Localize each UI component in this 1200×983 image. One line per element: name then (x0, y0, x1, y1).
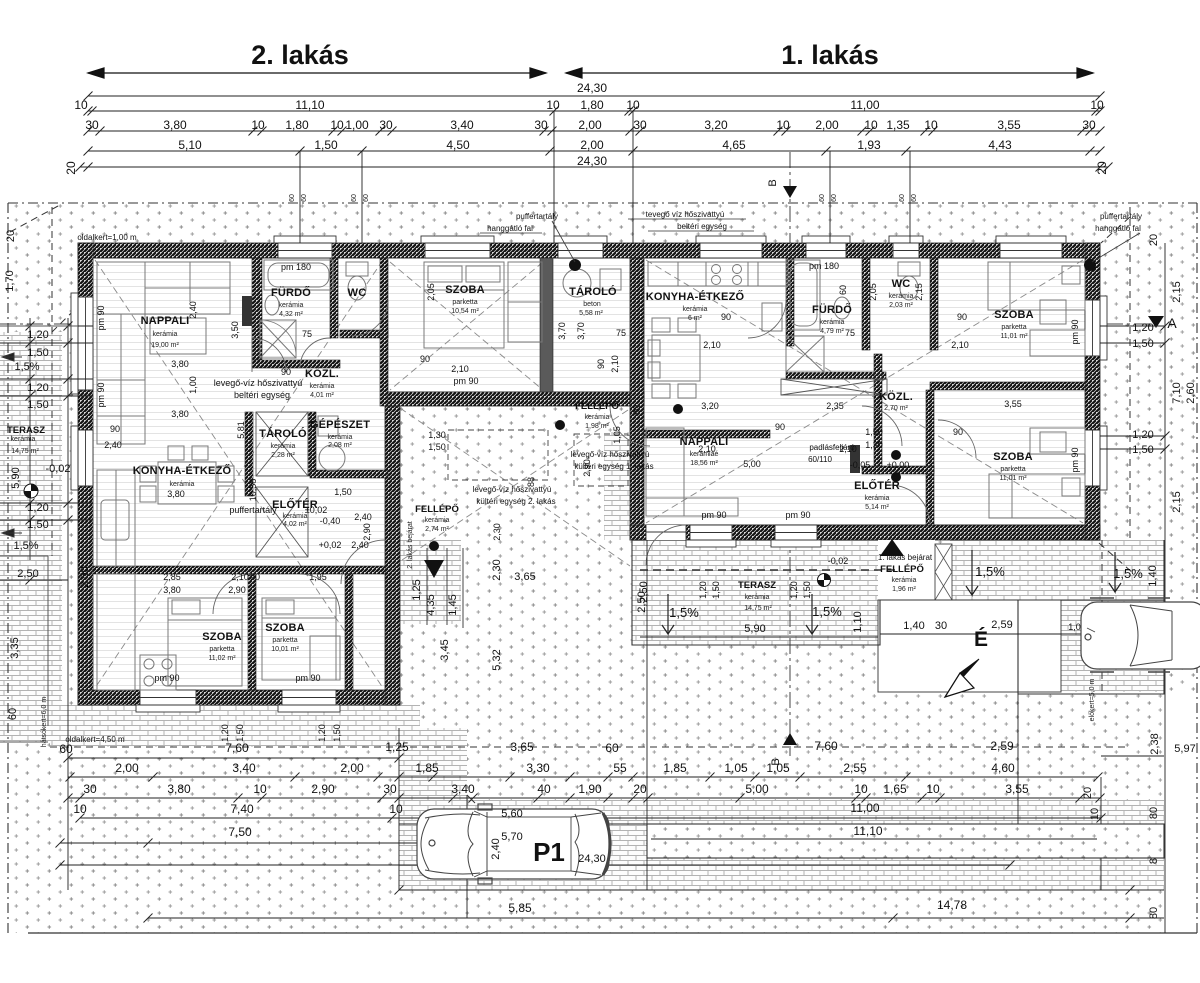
svg-text:kerámia: kerámia (585, 414, 610, 421)
beds lower wing (168, 598, 242, 686)
svg-text:1,20: 1,20 (220, 724, 230, 742)
svg-text:SZOBA: SZOBA (265, 622, 305, 634)
svg-text:2,05: 2,05 (868, 283, 878, 301)
property boundary (8, 203, 1197, 933)
svg-text:80: 80 (1148, 807, 1160, 819)
unit2 entry arrow (424, 560, 444, 578)
right dims (1100, 243, 1165, 933)
brick: right terrace (632, 540, 880, 645)
svg-text:oldalkert=1,00 m: oldalkert=1,00 m (77, 233, 137, 242)
svg-text:7,60: 7,60 (225, 741, 249, 755)
guide verticals to building (300, 111, 910, 243)
svg-text:SZOBA: SZOBA (993, 451, 1033, 463)
dining table unit1 (652, 335, 700, 381)
svg-text:60: 60 (363, 194, 370, 202)
svg-text:1,50: 1,50 (711, 581, 721, 599)
white court by parking (878, 600, 1061, 692)
svg-text:90: 90 (250, 572, 260, 582)
svg-text:1,50: 1,50 (27, 519, 48, 531)
svg-text:3,40: 3,40 (451, 782, 475, 796)
svg-text:10,58: 10,58 (248, 479, 258, 502)
svg-text:2,05: 2,05 (426, 283, 436, 301)
svg-text:levegő-víz hőszivattyú: levegő-víz hőszivattyú (473, 485, 552, 494)
svg-text:40: 40 (537, 782, 551, 796)
svg-text:2,08 m²: 2,08 m² (328, 442, 352, 449)
svg-text:4,43: 4,43 (988, 138, 1012, 152)
svg-text:beltéri egység: beltéri egység (677, 222, 727, 231)
svg-text:kerámia: kerámia (889, 293, 914, 300)
svg-text:1,80: 1,80 (580, 98, 604, 112)
dashed diagonals (95, 260, 1083, 688)
svg-text:1,5%: 1,5% (669, 605, 699, 620)
svg-text:1,20: 1,20 (698, 581, 708, 599)
svg-text:NAPPALI: NAPPALI (141, 315, 190, 327)
svg-text:kerámia: kerámia (425, 517, 450, 524)
svg-text:±0,02: ±0,02 (305, 505, 327, 515)
svg-text:1,96 m²: 1,96 m² (892, 586, 916, 593)
svg-text:7,40: 7,40 (230, 802, 254, 816)
svg-text:10: 10 (1090, 98, 1104, 112)
brick: unit2 entry path (399, 540, 461, 624)
svg-text:1,95: 1,95 (309, 572, 327, 582)
svg-text:2,90: 2,90 (228, 585, 246, 595)
svg-text:3,65: 3,65 (510, 740, 534, 754)
svg-text:5,60: 5,60 (501, 808, 522, 820)
svg-text:3,70: 3,70 (576, 322, 586, 340)
axis B dash-dot (789, 152, 791, 756)
svg-text:puffertartály: puffertartály (516, 212, 558, 221)
svg-text:3,80: 3,80 (163, 118, 187, 132)
svg-text:2,03 m²: 2,03 m² (889, 302, 913, 309)
svg-text:20: 20 (1082, 787, 1094, 799)
setback dashed lines (10, 206, 1133, 747)
svg-text:10: 10 (626, 98, 640, 112)
svg-text:7,50: 7,50 (228, 825, 252, 839)
svg-text:TERASZ: TERASZ (738, 580, 776, 591)
svg-text:1,30: 1,30 (428, 430, 446, 440)
svg-text:10: 10 (73, 802, 87, 816)
bed szoba unit1 bottom (989, 474, 1085, 518)
svg-text:3,40: 3,40 (232, 761, 256, 775)
svg-text:1,20: 1,20 (317, 724, 327, 742)
axis A marker (1148, 316, 1164, 328)
svg-text:levegő-víz hőszivattyú: levegő-víz hőszivattyú (571, 450, 650, 459)
svg-text:3,55: 3,55 (1004, 399, 1022, 409)
svg-text:20: 20 (1095, 161, 1109, 175)
svg-text:30: 30 (534, 118, 548, 132)
svg-text:KONYHA-ÉTKEZŐ: KONYHA-ÉTKEZŐ (133, 464, 232, 477)
svg-text:-0,05: -0,05 (850, 460, 871, 470)
svg-text:1,50: 1,50 (865, 427, 883, 437)
terrace door unit1 (646, 525, 686, 540)
svg-text:10: 10 (854, 782, 868, 796)
svg-text:2,85: 2,85 (163, 572, 181, 582)
svg-text:10: 10 (546, 98, 560, 112)
svg-text:60: 60 (605, 741, 619, 755)
svg-text:20: 20 (5, 230, 17, 242)
svg-text:2,40: 2,40 (490, 838, 502, 859)
building floor slabs (78, 243, 1100, 705)
svg-text:SZOBA: SZOBA (994, 309, 1034, 321)
svg-text:24,30: 24,30 (577, 154, 607, 168)
bathtub unit2 (264, 260, 333, 290)
svg-text:1,50: 1,50 (235, 724, 245, 742)
svg-text:parketta: parketta (209, 646, 234, 653)
wall: court north (385, 392, 644, 406)
svg-text:24,30: 24,30 (577, 81, 607, 95)
svg-text:tevegő víz hőszivattyú: tevegő víz hőszivattyú (646, 210, 725, 219)
svg-text:1,85: 1,85 (415, 761, 439, 775)
terrace border right (632, 540, 1164, 645)
svg-text:1,20: 1,20 (27, 382, 48, 394)
svg-text:4,79 m²: 4,79 m² (820, 328, 844, 335)
svg-text:10: 10 (330, 118, 344, 132)
svg-text:2,00: 2,00 (815, 118, 839, 132)
svg-text:1,50: 1,50 (334, 487, 352, 497)
dining table unit2 (158, 462, 216, 504)
axis A dash-dot (0, 323, 1160, 325)
svg-text:+0,02: +0,02 (319, 540, 342, 550)
svg-text:1,50: 1,50 (428, 442, 446, 452)
chimney unit1 (850, 445, 860, 473)
svg-text:10,01 m²: 10,01 m² (271, 646, 299, 653)
svg-text:pm 90: pm 90 (96, 305, 106, 330)
svg-text:5,90: 5,90 (744, 623, 765, 635)
storage X-box unit2 (256, 412, 308, 476)
svg-text:parketta: parketta (1000, 466, 1025, 473)
svg-text:É: É (974, 628, 988, 651)
svg-text:10: 10 (74, 98, 88, 112)
svg-text:2,90: 2,90 (311, 782, 335, 796)
svg-text:parketta: parketta (272, 637, 297, 644)
svg-text:30: 30 (633, 118, 647, 132)
svg-text:1,50: 1,50 (27, 347, 48, 359)
terrace border (0, 326, 78, 742)
svg-text:3,80: 3,80 (167, 489, 185, 499)
svg-text:60: 60 (831, 194, 838, 202)
svg-text:3,80: 3,80 (163, 585, 181, 595)
axis B marker top (783, 186, 797, 198)
svg-text:2,10: 2,10 (231, 572, 249, 582)
svg-text:TÁROLÓ: TÁROLÓ (259, 427, 307, 440)
svg-text:90: 90 (281, 367, 291, 377)
svg-text:1,98 m²: 1,98 m² (585, 423, 609, 430)
svg-text:1,40: 1,40 (903, 620, 924, 632)
parking band white strip (647, 824, 1164, 858)
svg-text:levegő-víz hőszivattyú: levegő-víz hőszivattyú (214, 378, 303, 388)
svg-text:4,35: 4,35 (425, 594, 437, 615)
svg-text:1,50: 1,50 (802, 581, 812, 599)
svg-text:1,00: 1,00 (188, 376, 198, 394)
svg-text:1,90: 1,90 (578, 782, 602, 796)
svg-text:11,10: 11,10 (295, 98, 324, 112)
svg-text:-0,40: -0,40 (320, 516, 341, 526)
svg-text:90: 90 (953, 427, 963, 437)
basin unit2 (265, 295, 279, 315)
svg-text:10,54 m²: 10,54 m² (451, 308, 479, 315)
svg-text:1,20: 1,20 (27, 329, 48, 341)
gepeszet boiler (319, 445, 345, 471)
svg-text:20: 20 (1148, 234, 1160, 246)
svg-text:1,50: 1,50 (27, 399, 48, 411)
brick: left terrace (0, 332, 62, 742)
svg-text:1,70: 1,70 (4, 270, 16, 291)
svg-text:pm 90: pm 90 (1070, 319, 1080, 344)
svg-text:2,10: 2,10 (839, 444, 857, 454)
svg-text:11,10: 11,10 (853, 824, 882, 838)
svg-text:60: 60 (911, 194, 918, 202)
svg-text:1,20: 1,20 (27, 502, 48, 514)
svg-text:kerámia: kerámia (170, 481, 195, 488)
svg-text:10: 10 (251, 118, 265, 132)
svg-text:14,75 m²: 14,75 m² (744, 605, 772, 612)
svg-text:FELLÉPŐ: FELLÉPŐ (415, 503, 459, 515)
shower unit2 (260, 320, 296, 358)
svg-text:10: 10 (776, 118, 790, 132)
svg-text:10: 10 (1089, 808, 1101, 820)
svg-text:7,60: 7,60 (814, 739, 838, 753)
svg-text:pm 90: pm 90 (785, 510, 810, 520)
svg-text:55: 55 (613, 761, 627, 775)
svg-text:2,00: 2,00 (340, 761, 364, 775)
svg-text:1,30: 1,30 (865, 440, 883, 450)
stove unit1 (706, 262, 748, 286)
svg-text:kerámia: kerámia (745, 594, 770, 601)
svg-text:2,30: 2,30 (492, 523, 502, 541)
sofa unit2 (97, 262, 230, 314)
svg-text:1,00: 1,00 (345, 118, 369, 132)
svg-text:11,01 m²: 11,01 m² (999, 475, 1027, 482)
svg-text:60: 60 (289, 194, 296, 202)
svg-text:kerámia: kerámia (310, 383, 335, 390)
svg-text:kerámia: kerámia (865, 495, 890, 502)
stove unit2 (140, 655, 176, 690)
svg-text:parketta: parketta (452, 299, 477, 306)
brick: walkway to parking (950, 540, 1164, 600)
svg-text:3,70: 3,70 (557, 322, 567, 340)
svg-text:20: 20 (64, 161, 78, 175)
windows left wing south wall (136, 690, 200, 712)
svg-text:90: 90 (110, 424, 120, 434)
svg-text:1,93: 1,93 (857, 138, 881, 152)
svg-text:2,59: 2,59 (991, 619, 1012, 631)
interior partitions unit1 (644, 258, 1085, 525)
svg-text:6 m²: 6 m² (688, 315, 703, 322)
wall: north (78, 243, 1100, 258)
svg-text:2,15: 2,15 (914, 283, 924, 301)
svg-text:1,40: 1,40 (1147, 565, 1159, 586)
exterior walls (78, 243, 1100, 705)
svg-text:2,10: 2,10 (698, 444, 716, 454)
bed szoba unit1 top (988, 262, 1085, 310)
svg-text:kerámia: kerámia (328, 434, 353, 441)
svg-text:3,45: 3,45 (439, 639, 451, 660)
svg-text:3,35: 3,35 (9, 637, 21, 658)
svg-text:3,55: 3,55 (1005, 782, 1029, 796)
svg-text:1,20: 1,20 (1132, 322, 1153, 334)
svg-text:FÜRDŐ: FÜRDŐ (271, 286, 311, 299)
svg-text:beton: beton (583, 301, 601, 308)
svg-text:beltéri egység: beltéri egység (234, 390, 290, 400)
svg-text:pm 180: pm 180 (809, 261, 839, 271)
svg-text:1,10: 1,10 (852, 611, 864, 632)
svg-text:18,56 m²: 18,56 m² (690, 460, 718, 467)
axis B marker bottom (783, 733, 797, 745)
svg-text:1,50: 1,50 (314, 138, 338, 152)
svg-text:30: 30 (83, 782, 97, 796)
basin unit1 (834, 297, 850, 319)
svg-text:SZOBA: SZOBA (202, 631, 242, 643)
svg-text:kerámia: kerámia (279, 302, 304, 309)
svg-text:2,30: 2,30 (491, 559, 503, 580)
svg-text:1,25: 1,25 (411, 579, 423, 600)
wc unit1 (898, 262, 920, 276)
svg-text:pm 90: pm 90 (453, 376, 478, 386)
svg-text:10: 10 (864, 118, 878, 132)
svg-text:kültéri egység 2. lakás: kültéri egység 2. lakás (476, 497, 555, 506)
svg-text:2,59: 2,59 (990, 739, 1014, 753)
svg-text:1,35: 1,35 (886, 118, 910, 132)
svg-text:90: 90 (420, 354, 430, 364)
svg-text:1,50: 1,50 (332, 724, 342, 742)
indoor heatpump unit (600, 269, 621, 290)
svg-text:4,50: 4,50 (446, 138, 470, 152)
left dims (0, 318, 93, 700)
svg-text:10: 10 (924, 118, 938, 132)
svg-text:4,65: 4,65 (722, 138, 746, 152)
svg-text:1,05: 1,05 (612, 426, 622, 444)
svg-text:3,80: 3,80 (167, 782, 191, 796)
svg-text:2,00: 2,00 (578, 118, 602, 132)
svg-text:kerámia: kerámia (11, 436, 36, 443)
svg-text:kerámia: kerámia (683, 306, 708, 313)
svg-text:60: 60 (351, 194, 358, 202)
svg-text:5,32: 5,32 (491, 649, 503, 670)
svg-text:2,00: 2,00 (115, 761, 139, 775)
puffer tank circle (563, 269, 591, 297)
svg-text:3,65: 3,65 (514, 571, 535, 583)
svg-text:P1: P1 (533, 837, 565, 867)
svg-text:2,90: 2,90 (362, 523, 372, 541)
ground stipple field (8, 203, 1197, 933)
wall: left wing south (78, 690, 400, 705)
svg-text:2,15: 2,15 (1171, 491, 1183, 512)
svg-text:2,40: 2,40 (104, 440, 122, 450)
svg-text:2,70 m²: 2,70 m² (884, 405, 908, 412)
svg-text:kerámia: kerámia (820, 319, 845, 326)
wc unit2 (346, 262, 368, 276)
svg-text:3,50: 3,50 (230, 321, 240, 339)
svg-text:FELLÉPŐ: FELLÉPŐ (575, 400, 619, 412)
windows unit1 south wall (686, 525, 736, 547)
svg-text:3,55: 3,55 (997, 118, 1021, 132)
wall: east (1085, 243, 1100, 540)
walkway dims line (880, 633, 1160, 635)
svg-text:pm 90: pm 90 (96, 382, 106, 407)
svg-text:KONYHA-ÉTKEZŐ: KONYHA-ÉTKEZŐ (646, 290, 745, 303)
svg-text:11,01 m²: 11,01 m² (1000, 333, 1028, 340)
kitchen unit2 counter (97, 470, 135, 566)
svg-text:2,55: 2,55 (843, 761, 867, 775)
bed szoba unit2 (424, 262, 504, 348)
svg-text:2,40: 2,40 (351, 540, 369, 550)
bathtub unit1 (786, 260, 820, 330)
svg-text:24,30: 24,30 (578, 853, 606, 865)
brick: band under left wing (50, 705, 420, 747)
svg-text:WC: WC (892, 278, 911, 290)
brick: parking pad right (1018, 540, 1164, 692)
svg-text:1,25: 1,25 (385, 740, 409, 754)
svg-text:14,78: 14,78 (937, 898, 967, 912)
wardrobe unit2 (508, 262, 542, 342)
svg-text:1. lakás: 1. lakás (781, 40, 879, 70)
fridge unit1 (762, 303, 782, 331)
svg-text:60: 60 (819, 194, 826, 202)
svg-text:30: 30 (935, 620, 947, 632)
unit1 entry arrow (880, 539, 904, 556)
svg-text:3,30: 3,30 (526, 761, 550, 775)
windows east wall (1085, 296, 1107, 360)
svg-text:5,81: 5,81 (236, 421, 246, 439)
desk szoba unit1 bottom (1030, 428, 1085, 454)
svg-text:14,75 m²: 14,75 m² (11, 448, 39, 455)
wall: unit1 south (630, 525, 1100, 540)
kitchen unit1 counter (648, 262, 788, 286)
svg-text:90: 90 (957, 312, 967, 322)
svg-text:1,50: 1,50 (1132, 444, 1153, 456)
svg-text:4,60: 4,60 (991, 761, 1015, 775)
svg-text:5,70: 5,70 (501, 831, 522, 843)
svg-text:2,28 m²: 2,28 m² (271, 452, 295, 459)
svg-text:5,90: 5,90 (10, 467, 22, 488)
svg-text:5,00: 5,00 (743, 459, 761, 469)
svg-text:1,5%: 1,5% (14, 361, 39, 373)
svg-text:30: 30 (1082, 118, 1096, 132)
svg-text:80: 80 (632, 405, 642, 415)
svg-text:4,01 m²: 4,01 m² (310, 392, 334, 399)
svg-text:30: 30 (85, 118, 99, 132)
sofa unit1 (646, 428, 684, 516)
svg-text:TÁROLÓ: TÁROLÓ (569, 285, 617, 298)
brick: unit1 entry path (604, 432, 632, 540)
svg-text:90: 90 (721, 312, 731, 322)
svg-text:11,00: 11,00 (850, 98, 879, 112)
svg-text:2,00: 2,00 (580, 138, 604, 152)
chimney unit2 (242, 296, 252, 326)
svg-text:10: 10 (253, 782, 267, 796)
svg-text:1,85: 1,85 (663, 761, 687, 775)
svg-text:1,20: 1,20 (1132, 429, 1153, 441)
svg-text:pm 180: pm 180 (281, 262, 311, 272)
svg-text:kerámia: kerámia (153, 331, 178, 338)
svg-text:19,00 m²: 19,00 m² (151, 342, 179, 349)
door arcs (213, 300, 976, 614)
svg-text:5,10: 5,10 (178, 138, 202, 152)
svg-text:11,02 m²: 11,02 m² (208, 655, 236, 662)
svg-text:TERASZ: TERASZ (7, 425, 45, 436)
svg-text:80: 80 (1148, 907, 1160, 919)
windows west wall (71, 293, 93, 394)
svg-text:20: 20 (633, 782, 647, 796)
sound insulating wall (hanggatlo fal) (540, 258, 553, 392)
svg-text:-0,02: -0,02 (828, 556, 849, 566)
svg-text:60: 60 (899, 194, 906, 202)
svg-text:30: 30 (379, 118, 393, 132)
svg-text:7,10: 7,10 (1171, 382, 1183, 403)
svg-text:hanggátló fal: hanggátló fal (1095, 224, 1141, 233)
svg-text:2,74 m²: 2,74 m² (425, 526, 449, 533)
svg-text:KÖZL.: KÖZL. (305, 367, 339, 380)
